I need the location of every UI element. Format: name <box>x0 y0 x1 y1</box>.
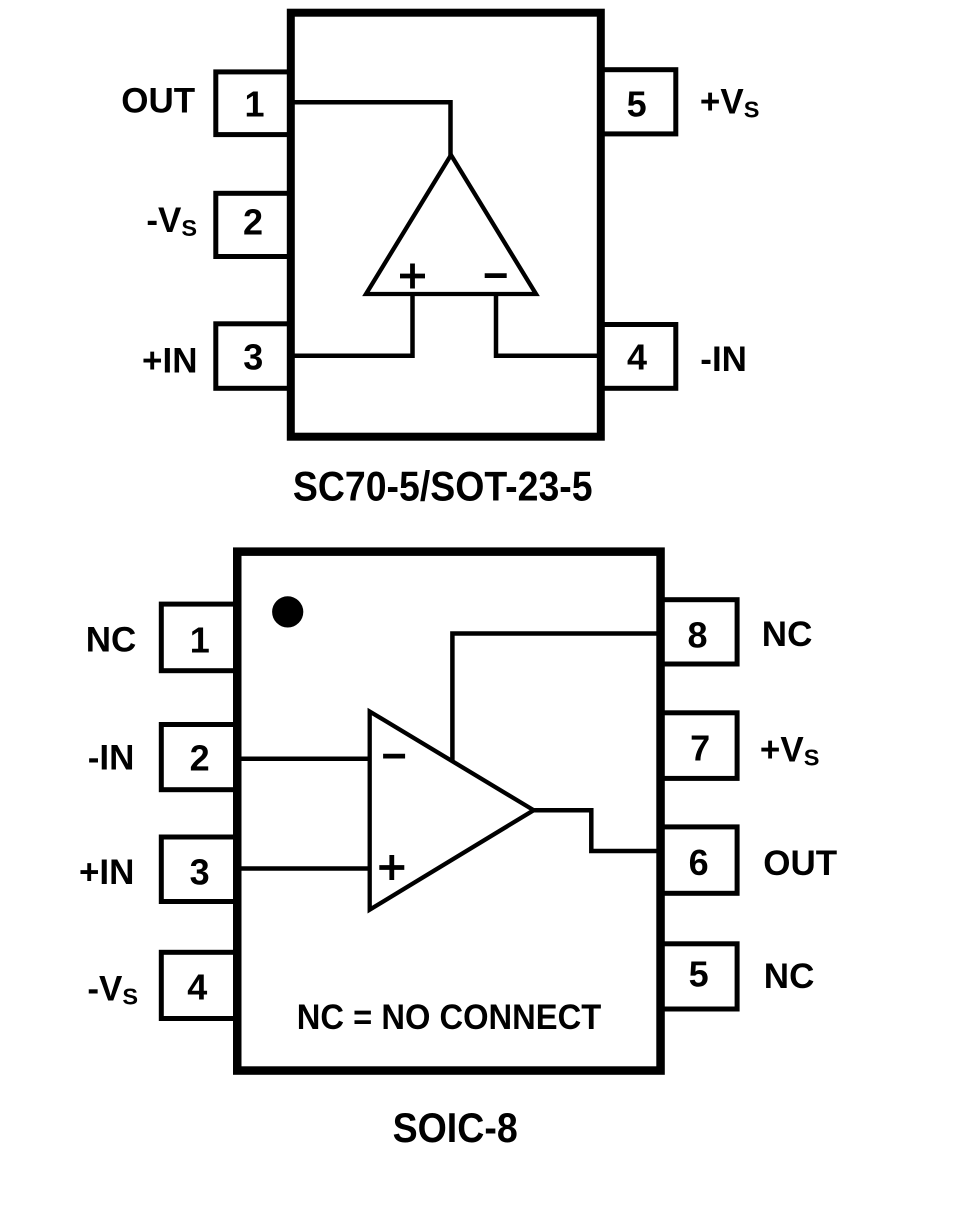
wire pin3 to op-amp +IN <box>239 866 370 871</box>
wire pin4 to op-amp -IN <box>496 292 603 356</box>
svg-text:1: 1 <box>190 620 210 661</box>
svg-text:NC: NC <box>86 621 137 660</box>
pin 4 box (SC70 -IN) <box>602 325 676 389</box>
wire pin1 to op-amp output <box>288 102 451 158</box>
pin 6 box (SOIC OUT) <box>661 827 738 893</box>
svg-text:2: 2 <box>190 738 210 779</box>
pin 2 box (SC70 -Vs) <box>216 193 290 256</box>
svg-text:5: 5 <box>627 84 647 125</box>
svg-text:5: 5 <box>689 954 709 995</box>
wire pin3 to op-amp +IN <box>288 292 413 356</box>
wire pin2 to op-amp -IN <box>239 756 370 761</box>
svg-text:-IN: -IN <box>700 340 747 379</box>
pin 8 box (SOIC NC) <box>661 600 738 664</box>
pin 5 box (SC70 +Vs) <box>602 70 676 134</box>
svg-text:SOIC-8: SOIC-8 <box>393 1104 518 1151</box>
svg-text:2: 2 <box>243 201 263 242</box>
svg-text:NC: NC <box>762 615 813 654</box>
pin-1 marker dot <box>272 596 303 627</box>
svg-text:3: 3 <box>243 336 263 377</box>
pin 1 box (SC70 OUT) <box>216 72 290 135</box>
op-amp A2 + input mark <box>379 855 404 880</box>
pin 3 box (SOIC +IN) <box>161 837 235 902</box>
op-amp A2 - input mark <box>383 754 405 759</box>
svg-text:7: 7 <box>690 727 710 768</box>
svg-text:4: 4 <box>187 967 207 1008</box>
package outline SC70-5/SOT-23-5 <box>291 13 601 437</box>
svg-text:4: 4 <box>627 336 647 377</box>
package outline SOIC-8 <box>237 552 660 1071</box>
op-amp A1 (SC70, pointing up) <box>366 155 536 294</box>
svg-text:SC70-5/SOT-23-5: SC70-5/SOT-23-5 <box>293 463 593 510</box>
svg-text:-IN: -IN <box>88 739 135 778</box>
wire pin8 <box>452 634 660 764</box>
pin 7 box (SOIC +Vs) <box>661 713 738 779</box>
svg-text:1: 1 <box>244 84 264 125</box>
op-amp A1 - input mark <box>485 273 507 278</box>
pin 3 box (SC70 +IN) <box>216 324 290 389</box>
pin 5 box (SOIC NC) <box>661 944 738 1009</box>
svg-text:+IN: +IN <box>142 342 197 381</box>
pin 4 box (SOIC -Vs) <box>161 952 235 1018</box>
svg-text:3: 3 <box>190 852 210 893</box>
svg-text:NC: NC <box>764 957 815 996</box>
wire op-amp output to pin6 <box>532 810 660 851</box>
op-amp A1 + input mark <box>400 264 425 289</box>
svg-text:OUT: OUT <box>121 82 195 121</box>
svg-text:+IN: +IN <box>79 853 134 892</box>
pin 1 box (SOIC NC) <box>161 604 235 671</box>
svg-text:6: 6 <box>689 842 709 883</box>
pin 2 box (SOIC -IN) <box>161 725 235 790</box>
op-amp A2 (SOIC, pointing right) <box>370 712 534 910</box>
svg-text:8: 8 <box>687 614 707 655</box>
svg-text:NC = NO CONNECT: NC = NO CONNECT <box>297 997 602 1037</box>
svg-text:OUT: OUT <box>763 844 837 883</box>
